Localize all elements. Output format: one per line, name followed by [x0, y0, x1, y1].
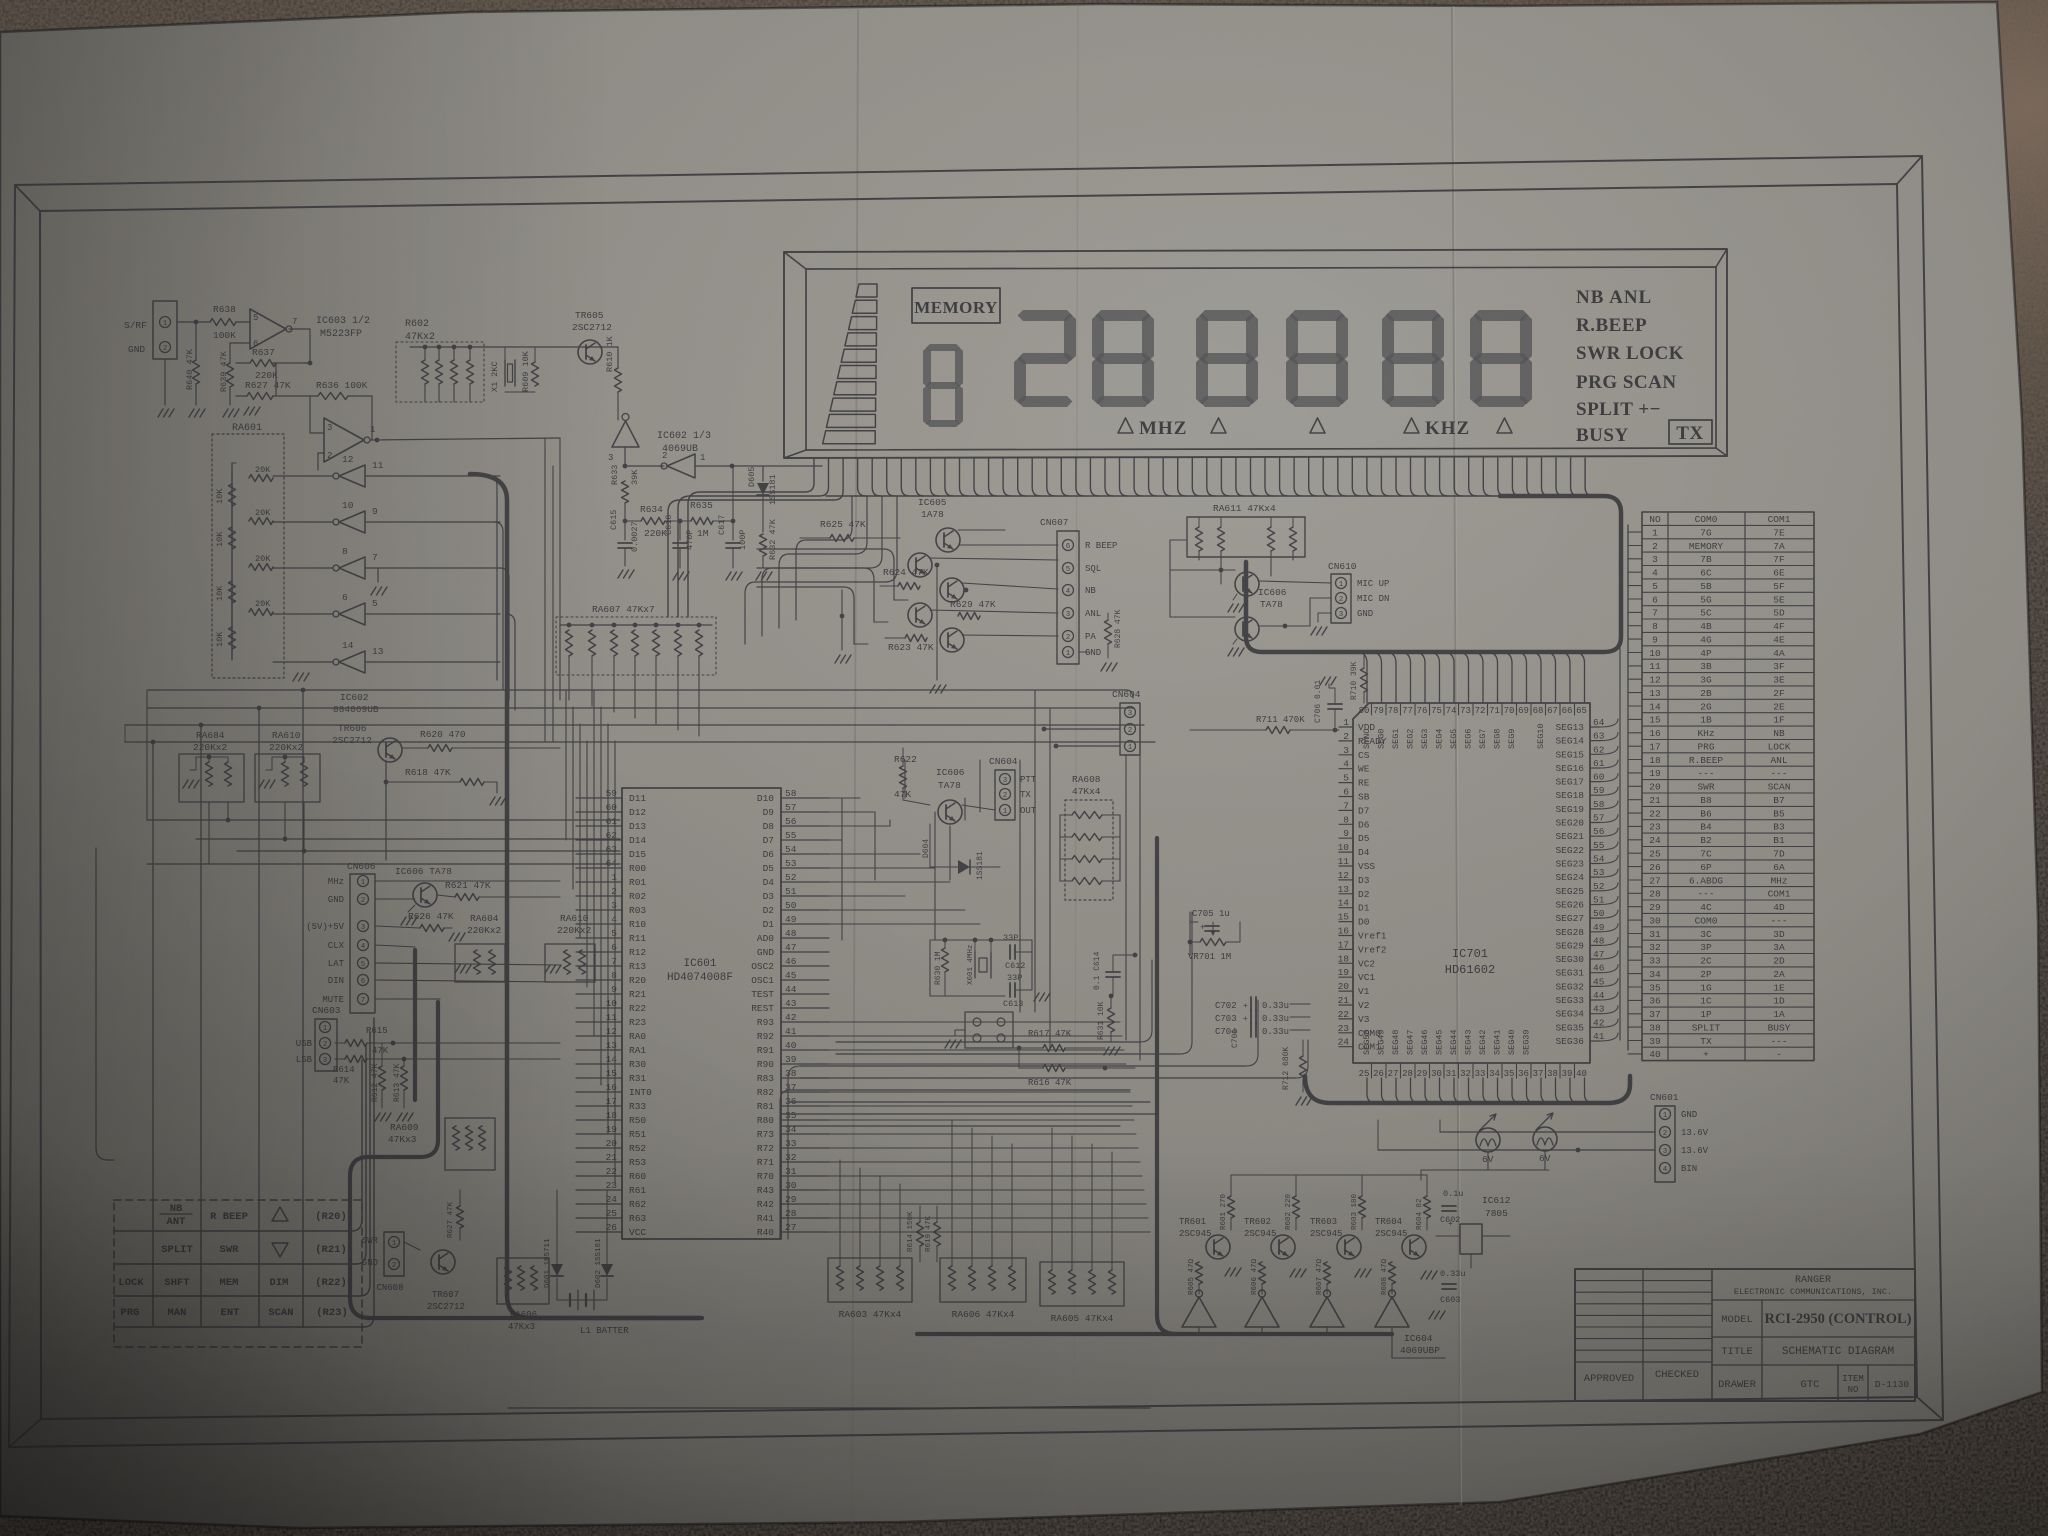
IC701 pin 41 SEG36 [1590, 1040, 1600, 1042]
IC601 pin 64 R00 [576, 867, 622, 869]
bus horizontals upper band [148, 689, 1126, 691]
IC701 pin 48 SEG29 [1590, 944, 1600, 946]
IC701 bottom pin drops [1367, 1078, 1376, 1103]
R602 resistor leg 3 [451, 360, 458, 384]
thick bus vertical x415 [413, 950, 417, 1100]
IC701 pin 8 D6 [1339, 823, 1353, 825]
wire CN602 to R638 [177, 321, 210, 323]
digit 8 #4 [1386, 310, 1441, 321]
RA607 resistor 7 [697, 623, 702, 628]
IC701 pin 24 COM1 [1339, 1046, 1353, 1048]
resistor R602 220 [1293, 1196, 1300, 1218]
RA601 20K resistor 4 [249, 609, 273, 616]
IC601 pin 11 R23 [576, 1021, 622, 1023]
bus verticals between IC601 and osc [841, 798, 843, 940]
transistor IC606b Q2 [1235, 617, 1259, 641]
left bends of band [788, 1066, 800, 1239]
IC601 pin 35 R80 [781, 1119, 829, 1121]
jumper block [965, 1012, 1013, 1048]
capacitor C617 100P [732, 521, 734, 540]
VR701 1M potentiometer [1200, 939, 1226, 946]
border frame outer [9, 156, 1943, 1447]
ground left IC605 [841, 590, 843, 650]
IC601 pin 1 R01 [576, 881, 622, 883]
IC701 pin 56 SEG21 [1590, 835, 1600, 837]
IC701 bottom thick bus [1305, 1076, 1630, 1103]
ground R632 [756, 572, 761, 580]
RA607 left rail [559, 625, 561, 700]
thick bus x1157 [1157, 838, 1176, 1334]
lamp LP2 6V [1533, 1127, 1557, 1151]
resistor R628 47K [1105, 620, 1112, 644]
inverter 12/11 [339, 465, 365, 487]
IC601 pin 50 D2 [781, 909, 829, 911]
IC604 inverter 1 [1182, 1297, 1216, 1327]
ground R628 [1101, 663, 1106, 671]
IC701 pin 7 D7 [1339, 809, 1353, 811]
ground CN607 [1079, 651, 1090, 653]
ground IC606b Q2 [1233, 639, 1237, 644]
RA611 left rail [1169, 540, 1171, 617]
ground CN602 [158, 409, 163, 417]
lamp LP1 6V [1476, 1128, 1500, 1152]
ground IC606b Q1 [1233, 594, 1237, 600]
transistor IC605 Q3 [940, 578, 964, 602]
resistor R603 180 [1359, 1196, 1366, 1218]
crystal X1 2KC [504, 360, 506, 386]
IC701 pin 55 SEG22 [1590, 849, 1600, 851]
IC601 pin 48 AD0 [781, 937, 829, 939]
IC601 pin 24 R62 [576, 1203, 622, 1205]
IC701 pin 64 SEG13 [1590, 726, 1600, 728]
inverter 14/13 [339, 651, 365, 673]
transistor TR607 2SC2712 [431, 1250, 455, 1274]
digit 8 #3 [1290, 310, 1345, 321]
IC601 pin 54 D6 [781, 853, 829, 855]
lamp wires [1487, 1152, 1489, 1170]
IC601 pin 43 REST [781, 1007, 829, 1009]
capacitor C613 [1009, 983, 1011, 997]
bottom horizontal bus band [836, 1041, 1140, 1043]
ground R631 [1104, 1047, 1109, 1055]
IC701 right pin fan to table [1600, 719, 1618, 727]
digit 8 #1 [1096, 310, 1151, 321]
IC701 pin 43 SEG34 [1590, 1013, 1600, 1015]
RA601 20K resistor 2 [249, 518, 273, 525]
RA607 resistor 3 [612, 623, 617, 628]
resistor R632 47K [762, 497, 764, 532]
IC604 inverter 2 [1245, 1297, 1279, 1327]
IC701 pin 63 SEG14 [1590, 740, 1600, 742]
display segment bus comb [858, 458, 866, 496]
diode D605 1SS181 [762, 466, 764, 481]
IC601 pin 30 R43 [781, 1189, 829, 1191]
IC701 pin 23 COM0 [1339, 1032, 1353, 1034]
IC604 inverter 3 [1310, 1297, 1344, 1327]
RA607 resistor 6 [676, 623, 681, 628]
ground RA684 [183, 780, 188, 788]
ground C706 [1320, 677, 1325, 685]
IC601 pin 26 VCC [576, 1231, 622, 1233]
ground R618 [490, 797, 495, 805]
IC701 pin 13 D2 [1339, 893, 1353, 895]
CN604 upper feed wires [1126, 690, 1133, 698]
IC701 pin 1 VDD [1339, 726, 1353, 728]
IC701 pin 5 RE [1339, 782, 1353, 784]
capacitor C615 0.0027 [624, 503, 626, 540]
IC701 pin 49 SEG28 [1590, 931, 1600, 933]
TX box [1669, 420, 1712, 444]
IC603b output wire [370, 438, 560, 440]
IC601 pin 37 R82 [781, 1091, 829, 1093]
resistor R608 47 [1389, 1262, 1396, 1284]
thick bus vertical x438 to bottom [350, 1002, 702, 1318]
IC701 pin 14 D1 [1339, 907, 1353, 909]
resistor array RA606 47Kx4 [940, 1258, 1026, 1302]
IC601 pin 62 D14 [576, 839, 622, 841]
resistor R604 82 [1424, 1196, 1431, 1218]
inverter output bends down [488, 476, 497, 680]
RA607 resistor 1 [567, 623, 572, 628]
RA607 resistor 4 [633, 623, 638, 628]
IC601 pin 23 R61 [576, 1189, 622, 1191]
resistor R640 47K [193, 360, 200, 384]
ground R712 [1296, 1097, 1301, 1105]
IC601 pin 41 R92 [781, 1035, 829, 1037]
digit small 8 [926, 344, 960, 351]
resistor R601 270 [1228, 1196, 1235, 1218]
transistor IC605 Q4 [908, 603, 932, 627]
IC601 pin 17 R33 [576, 1105, 622, 1107]
IC601 pin 46 OSC2 [781, 965, 829, 967]
IC701 pin 11 VSS [1339, 865, 1353, 867]
RA601 10K resistor 2 [229, 527, 236, 549]
IC601 pin 47 GND [781, 951, 829, 953]
RA601 20K resistor 3 [249, 564, 273, 571]
IC601 pin 10 R22 [576, 1007, 622, 1009]
bus mid horizontals [147, 819, 620, 821]
IC601 pin 38 R83 [781, 1077, 829, 1079]
transistor IC605 Q2 [908, 553, 932, 577]
IC601 pin 18 R50 [576, 1119, 622, 1121]
R602 resistor leg 1 [422, 360, 429, 384]
grounds under drivers [1225, 1268, 1230, 1276]
resistor R605 47 [1196, 1262, 1203, 1284]
IC601 pin 42 R93 [781, 1021, 829, 1023]
IC701 pin 21 V2 [1339, 1004, 1353, 1006]
ground inverter 7 [377, 568, 379, 582]
IC701 pin 58 SEG19 [1590, 808, 1600, 810]
IC701 pin 19 VC1 [1339, 976, 1353, 978]
IC601 pin 2 R02 [576, 895, 622, 897]
IC601 pin 44 TEST [781, 993, 829, 995]
IC701 pin 54 SEG23 [1590, 863, 1600, 865]
RA607 resistor 5 [654, 623, 659, 628]
oscillator section wires [625, 520, 641, 522]
display left curl wires [796, 496, 852, 620]
IC601 pin 61 D13 [576, 825, 622, 827]
ground C617 [726, 572, 731, 580]
IC601 pin 33 R72 [781, 1147, 829, 1149]
IC601 pin 9 R21 [576, 993, 622, 995]
CN610 wires [1259, 581, 1331, 583]
nested bend wires to IC605 [757, 549, 894, 600]
ground RA610 [259, 780, 264, 788]
IC601 pin 20 R52 [576, 1147, 622, 1149]
IC601 pin 15 R31 [576, 1077, 622, 1079]
IC601 pin 12 RA0 [576, 1035, 622, 1037]
IC601 pin 32 R71 [781, 1161, 829, 1163]
IC701 pin 15 D0 [1339, 921, 1353, 923]
resistor R639 47K [227, 363, 234, 387]
triangle indicators and MHZ KHZ labels [1118, 418, 1133, 433]
RA608 resistor 3 [1072, 856, 1102, 863]
connector CN602 [153, 301, 177, 359]
IC601 HD4074008F microcontroller [622, 788, 781, 1239]
IC601 pin 8 R20 [576, 979, 622, 981]
RA608 resistor 1 [1072, 812, 1102, 819]
IC601 pin 29 R42 [781, 1203, 829, 1205]
RA608 resistor 2 [1072, 834, 1102, 841]
IC701 pin 60 SEG17 [1590, 781, 1600, 783]
seg bus thick trunk right [1246, 496, 1621, 652]
IC701 pin 62 SEG15 [1590, 753, 1600, 755]
IC701 pin 52 SEG25 [1590, 890, 1600, 892]
RA608 resistor 4 [1072, 878, 1102, 885]
R602 resistor leg 4 [467, 360, 474, 384]
IC601 pin 39 R90 [781, 1063, 829, 1065]
IC701 pin 4 WE [1339, 768, 1353, 770]
IC605 wires [958, 529, 1005, 531]
ground R612 [375, 1113, 380, 1121]
IC701 pin 59 SEG18 [1590, 794, 1600, 796]
band right bends [1140, 960, 1152, 1042]
inverter IC602 2 [667, 454, 695, 478]
R602 resistor leg 2 [436, 360, 443, 384]
resistor R633 39K [622, 481, 629, 503]
signal meter bar graph [856, 284, 877, 297]
long bottom horizontals [508, 1407, 1150, 1409]
IC601 pin 22 R60 [576, 1175, 622, 1177]
resistor R607 47 [1324, 1262, 1331, 1284]
keypad matrix legend [114, 1200, 362, 1347]
IC701 pin 47 SEG30 [1590, 958, 1600, 960]
resistor array RA602 47Kx3 [497, 1258, 549, 1304]
resistor R631 10K [1108, 1008, 1115, 1032]
IC601 pin 34 R73 [781, 1133, 829, 1135]
resistor array RA605 47Kx4 [1040, 1262, 1124, 1306]
left meter seg wires [688, 458, 814, 617]
wires op-amp section [164, 359, 166, 405]
IC601 pin 3 R03 [576, 909, 622, 911]
RA601 20K resistor 1 [249, 475, 273, 482]
IC701 pin 22 V3 [1339, 1018, 1353, 1020]
ground R640 [189, 409, 194, 417]
ground jumper block [955, 1030, 965, 1036]
table feed stubs [1628, 531, 1642, 533]
IC601 pin 56 D8 [781, 825, 829, 827]
IC601 right horizontals lower [829, 1021, 1120, 1023]
IC601 pin 63 D15 [576, 853, 622, 855]
verticals IC601 bottom to battery [556, 1190, 558, 1252]
IC601 pin 14 R30 [576, 1063, 622, 1065]
IC701 pin 42 SEG35 [1590, 1026, 1600, 1028]
border frame mitres [15, 185, 40, 211]
IC701 pin 3 CS [1339, 754, 1353, 756]
IC701 pin 53 SEG24 [1590, 876, 1600, 878]
ground R639 [223, 409, 228, 417]
ground C616 [673, 572, 678, 580]
transistor IC605 Q5 [940, 628, 964, 652]
resistor R630 1M [942, 948, 949, 972]
IC601 pin 36 R81 [781, 1105, 829, 1107]
IC701 pin 10 D4 [1339, 851, 1353, 853]
resistor R619 47K [934, 1222, 941, 1246]
IC601 left feed verticals [565, 690, 567, 840]
IC601 pin 16 INT0 [576, 1091, 622, 1093]
CN601 wires [1440, 1131, 1655, 1133]
IC601 pin 19 R51 [576, 1133, 622, 1135]
weave verticals left of IC601 [544, 438, 546, 742]
IC701 pin 16 Vref1 [1339, 935, 1353, 937]
MEMORY annunciator [912, 288, 1000, 323]
IC701 pin 46 SEG31 [1590, 972, 1600, 974]
ground C603 [1429, 1311, 1434, 1319]
IC601 pin 51 D3 [781, 895, 829, 897]
left edge long vertical [96, 848, 114, 1160]
resistor R627b 47K [457, 1206, 464, 1228]
ground IC605 center [930, 685, 935, 693]
thick bottom bus [917, 1332, 1392, 1336]
collector top bus [1231, 1174, 1427, 1176]
transistor IC605 Q1 [936, 528, 960, 552]
IC601 pin 13 RA1 [576, 1049, 622, 1051]
ground CN610 [1311, 627, 1316, 635]
IC601 pin 49 D1 [781, 923, 829, 925]
IC701 pin 57 SEG20 [1590, 822, 1600, 824]
IC701 pin 20 V1 [1339, 990, 1353, 992]
IC601 pin 27 R40 [781, 1231, 829, 1233]
wires CN606 to right [375, 880, 560, 882]
IC601 pin 21 R53 [576, 1161, 622, 1163]
ground C615 [618, 570, 623, 578]
IC601 pin 7 R13 [576, 965, 622, 967]
RA684 RA610 drop wires [208, 802, 210, 864]
fold creases [852, 10, 858, 1524]
seg bus baseline [826, 495, 1604, 497]
IC601 pin 6 R12 [576, 951, 622, 953]
oscillator wires [930, 939, 1032, 941]
IC701 HD61602 LCD driver [1353, 703, 1590, 1063]
RA601 10K resistor 4 [229, 627, 236, 649]
IC701 pin 44 SEG33 [1590, 999, 1600, 1001]
table bus verticals [1627, 525, 1629, 1050]
keypad row return hooks [352, 1060, 362, 1231]
RA607 resistor 2 [590, 623, 595, 628]
IC701 pin 12 D3 [1339, 879, 1353, 881]
bus left verticals to keypad [152, 742, 154, 1200]
IC601 pin 25 R63 [576, 1217, 622, 1219]
resistor R606 47 [1259, 1262, 1266, 1284]
ground oscillator [1034, 993, 1039, 1001]
ground IC606a emitter [408, 905, 415, 912]
IC701 pin 51 SEG26 [1590, 904, 1600, 906]
ground R626 [449, 933, 454, 941]
ground RA610b [545, 965, 550, 973]
IC701 pin 45 SEG32 [1590, 985, 1600, 987]
resistor array RA603 47Kx4 [828, 1258, 912, 1302]
transistor IC606b Q1 [1235, 572, 1259, 596]
LCD display module frame [784, 249, 1727, 458]
IC601 pin 60 D12 [576, 811, 622, 813]
capacitor C616 470P [679, 521, 681, 540]
top area connecting wires [484, 346, 618, 348]
digit 2 [1018, 310, 1073, 321]
op-amp IC603a [250, 309, 286, 349]
ground R627 input [244, 407, 249, 415]
op-amp IC603b [324, 418, 364, 462]
crystal X601 4MHz [974, 952, 976, 978]
center weave verticals [1019, 760, 1021, 1012]
IC601 pin 58 D10 [781, 797, 829, 799]
inverter 10/9 [339, 511, 365, 533]
IC601 right pin bus horizontals upper [829, 797, 860, 799]
IC604 inverter 4 [1375, 1297, 1409, 1327]
inverter IC602 1/3 (vertical) [612, 421, 639, 447]
RA601 10K resistor 1 [229, 484, 236, 506]
digit 8 #2 [1200, 310, 1255, 321]
resistor R614b 150K [917, 1222, 924, 1246]
IC601 pin 4 R10 [576, 923, 622, 925]
IC701 pin 18 VC2 [1339, 962, 1353, 964]
border frame inner [40, 184, 1917, 1419]
IC601 pin 28 R41 [781, 1217, 829, 1219]
IC601 pin 5 R11 [576, 937, 622, 939]
RA601 10K resistor 3 [229, 581, 236, 603]
title block [1575, 1269, 1915, 1401]
inverter 6/5 [339, 603, 365, 625]
thick bus vertical x507 [470, 474, 700, 1318]
digit 8 #5 [1474, 310, 1529, 321]
battery L1 [557, 1299, 607, 1301]
ground R613 [397, 1113, 402, 1121]
left edge verticals [146, 690, 148, 820]
resistor R609 10K [532, 362, 539, 386]
resistor R610 1K [615, 368, 622, 392]
IC701 pin 50 SEG27 [1590, 917, 1600, 919]
CN604 lower wires [962, 805, 995, 810]
IC601 pin 52 D4 [781, 881, 829, 883]
RA611 base wires [1220, 551, 1222, 584]
IC701 pin 17 Vref2 [1339, 948, 1353, 950]
IC601 pin 55 D7 [781, 839, 829, 841]
inverter 8/7 [339, 557, 365, 579]
IC701 top pin bus peel-offs [1356, 652, 1367, 703]
IC701 pin 61 SEG16 [1590, 767, 1600, 769]
IC601 pin 31 R70 [781, 1175, 829, 1177]
RA601 vertical rail [231, 463, 233, 660]
IC601 pin 53 D5 [781, 867, 829, 869]
IC601 pin 57 D9 [781, 811, 829, 813]
segment assignment table [1642, 512, 1814, 1061]
IC601 pin 59 D11 [576, 797, 622, 799]
IC601 pin 45 OSC1 [781, 979, 829, 981]
IC701 pin 9 D5 [1339, 837, 1353, 839]
IC701 pin 6 SB [1339, 796, 1353, 798]
IC701 pin 2 READY [1339, 740, 1353, 742]
ground RA604 [455, 965, 460, 973]
ground RA601 [293, 673, 298, 681]
